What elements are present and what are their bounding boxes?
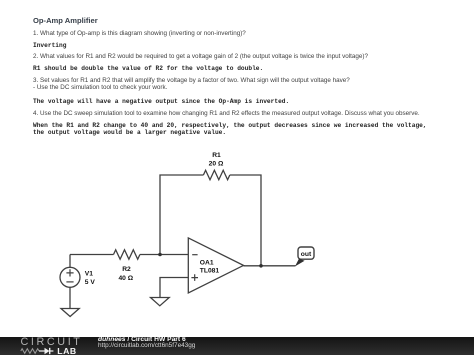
svg-text:R2: R2 [122,266,131,273]
svg-text:OA1: OA1 [200,260,214,267]
svg-text:TL081: TL081 [200,268,220,275]
svg-text:V1: V1 [85,271,93,278]
svg-text:5 V: 5 V [85,279,96,286]
svg-text:40 Ω: 40 Ω [118,275,133,282]
svg-text:out: out [301,251,312,258]
svg-text:LAB: LAB [57,346,76,355]
svg-text:20 Ω: 20 Ω [209,161,224,168]
svg-text:R1: R1 [212,152,221,159]
